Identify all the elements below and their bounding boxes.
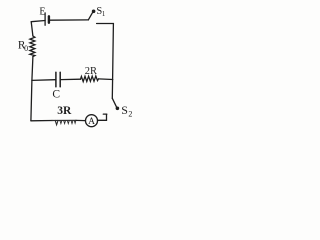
switch S2 blade <box>112 98 116 107</box>
wire top-right L down the right side <box>97 24 114 80</box>
switch S1 pivot dot <box>92 10 96 14</box>
svg-text:E: E <box>39 6 45 17</box>
svg-text:1: 1 <box>102 10 106 18</box>
wire right side lower <box>111 80 113 99</box>
svg-text:3R: 3R <box>57 105 72 117</box>
svg-text:A: A <box>88 117 95 127</box>
wire middle branch left <box>32 79 56 82</box>
svg-text:C: C <box>52 89 60 101</box>
wire ammeter to S2 contact stub <box>98 114 107 120</box>
switch S1 blade <box>88 12 92 20</box>
resistor 2R <box>81 76 99 82</box>
wire left side lower <box>31 57 33 121</box>
resistor 3R <box>52 120 76 125</box>
capacitor C <box>56 72 60 87</box>
wire bottom-left to 3R <box>31 120 52 122</box>
wire battery to switch S1 <box>50 19 89 21</box>
wire left side upper lead <box>31 22 33 36</box>
svg-text:S: S <box>121 103 128 117</box>
wire 3R to ammeter <box>76 119 85 121</box>
ammeter A <box>86 115 98 127</box>
wire capacitor to 2R <box>61 78 81 80</box>
wire 2R to right side <box>99 78 113 81</box>
wire top-left corner to battery <box>31 21 45 22</box>
svg-text:2R: 2R <box>85 66 97 77</box>
svg-text:0: 0 <box>24 44 28 53</box>
battery E <box>45 13 49 25</box>
svg-text:2: 2 <box>128 110 132 119</box>
resistor R0 <box>30 36 35 57</box>
switch S2 pivot dot <box>116 107 120 111</box>
switch S2 contact tick <box>103 113 107 115</box>
